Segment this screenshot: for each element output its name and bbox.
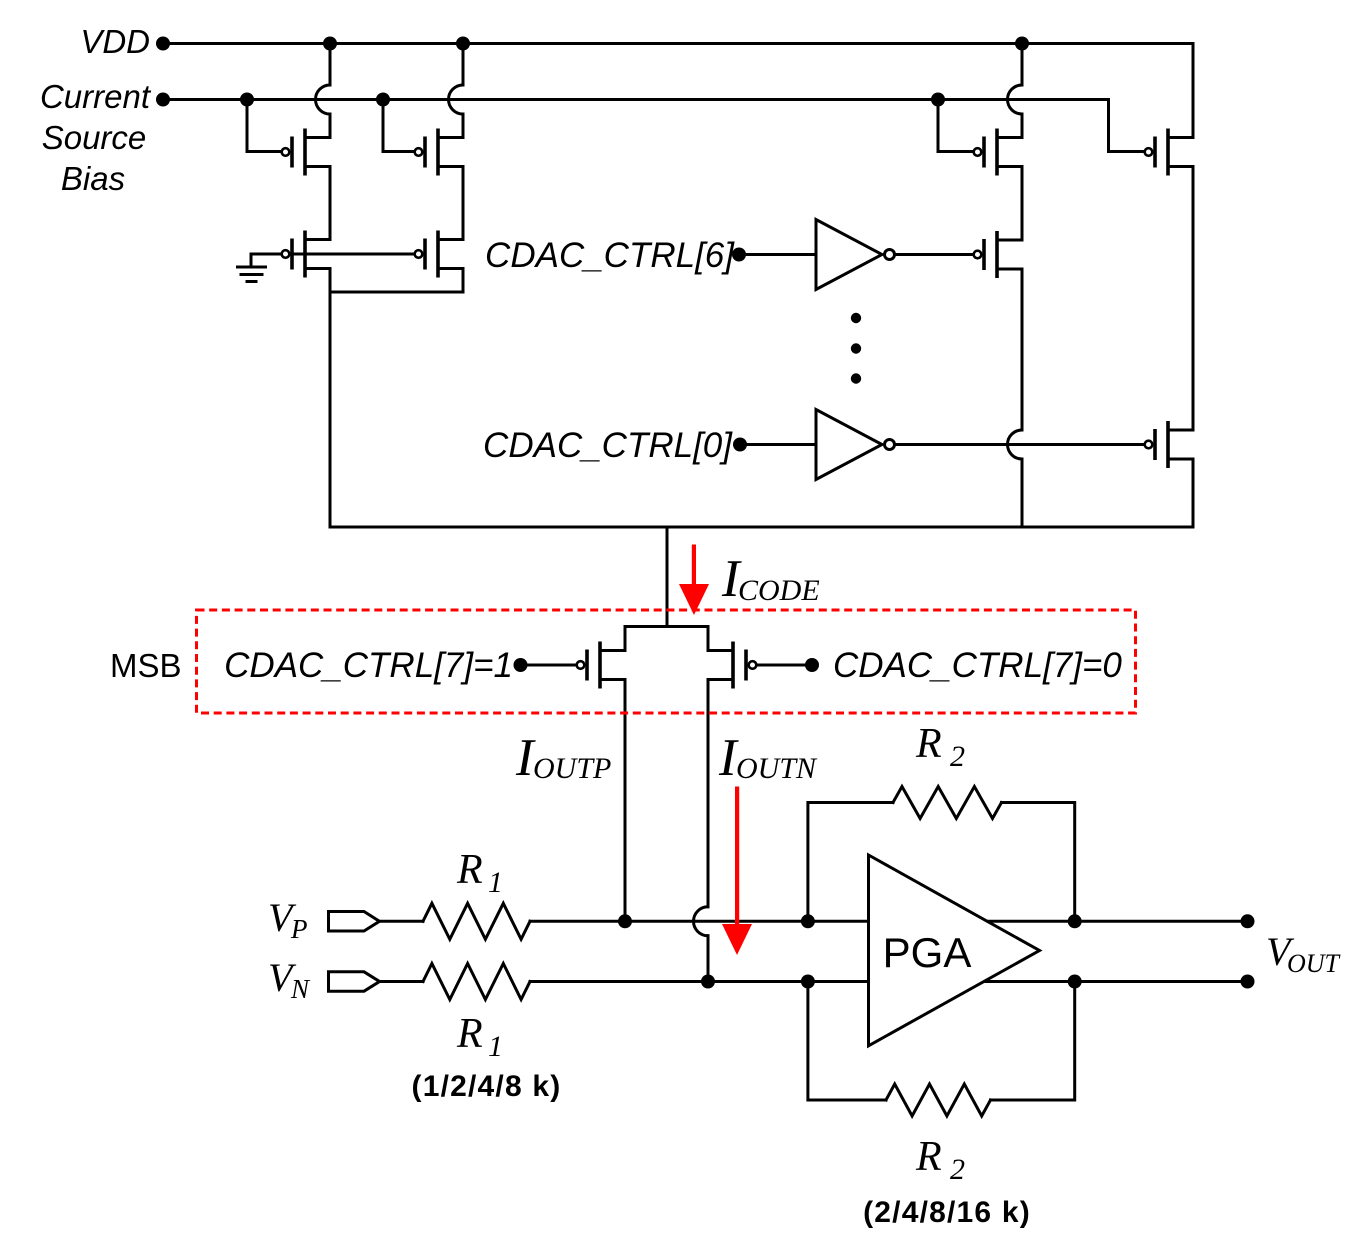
- svg-text:2: 2: [950, 740, 965, 773]
- svg-text:(2/4/8/16 k): (2/4/8/16 k): [863, 1196, 1031, 1229]
- transistor M5: [974, 129, 1022, 176]
- node IOUTP-VP junction: [618, 914, 632, 928]
- node bias terminal: [156, 93, 170, 107]
- wire VDD to M1 source with hop: [329, 44, 332, 86]
- wire R2 top feedback loop: [808, 803, 893, 922]
- wire CDAC_CTRL[6] input to inverter: [739, 253, 816, 256]
- wire M8 drain to bus: [1192, 459, 1195, 527]
- wire M5 drain to M6 source: [1021, 167, 1024, 241]
- node ctrl7a input: [514, 658, 528, 672]
- svg-text:OUT: OUT: [1287, 949, 1341, 978]
- node R2a right: [1068, 914, 1082, 928]
- wire VDD to M3 source with hop: [462, 44, 465, 86]
- transistor M2: [282, 231, 330, 278]
- wire I_OUTP drop: [624, 680, 627, 922]
- svg-text:Current: Current: [40, 78, 152, 115]
- svg-text:P: P: [290, 914, 308, 944]
- svg-text:VDD: VDD: [80, 23, 150, 60]
- transistor M4: [415, 231, 463, 278]
- transistor M3: [415, 129, 463, 176]
- arrow I_CODE: [679, 545, 709, 616]
- wire M4 drain merge: [330, 269, 463, 293]
- svg-text:1: 1: [488, 866, 503, 899]
- node VOUT- terminal: [1241, 975, 1255, 989]
- svg-text:Source: Source: [42, 119, 147, 156]
- wire VDD to M5 source with hop: [1021, 44, 1024, 86]
- MSB dashed box: [197, 610, 1136, 713]
- inverter U2: [816, 410, 895, 480]
- wire VN line: [380, 980, 424, 983]
- svg-text:MSB: MSB: [110, 647, 182, 684]
- wire bottom summing bus: [330, 526, 1193, 529]
- wire inverter U2 to M8 gate: [897, 443, 1145, 446]
- svg-text:PGA: PGA: [883, 929, 972, 976]
- node VDD terminal: [156, 37, 170, 51]
- node VDD-col1: [323, 37, 337, 51]
- wire VDD rail: [163, 42, 1193, 45]
- node ctrl6 input: [732, 248, 746, 262]
- wire R2 bottom feedback loop: [808, 982, 886, 1101]
- node ctrl7b input: [805, 658, 819, 672]
- transistor M8: [1145, 421, 1193, 468]
- wire VOUT negative line: [984, 980, 1248, 983]
- node bias-col6: [931, 93, 945, 107]
- svg-text:OUTN: OUTN: [736, 752, 818, 785]
- wire inverter U1 to M6 gate: [897, 253, 973, 256]
- resistor R1 top: [423, 903, 530, 939]
- svg-text:R: R: [456, 847, 483, 893]
- node bias-col2: [376, 93, 390, 107]
- op-amp PGA: [869, 855, 1040, 1046]
- wire bias rail: [163, 98, 1109, 101]
- node VOUT+ terminal: [1241, 914, 1255, 928]
- wire I_OUTN drop with hop over VP line: [707, 680, 710, 907]
- svg-text:(1/2/4/8 k): (1/2/4/8 k): [412, 1070, 562, 1103]
- transistor M6: [974, 231, 1022, 278]
- wire M7 drain to M8 source: [1192, 167, 1195, 431]
- inverter U1: [816, 220, 895, 290]
- transistor M9 MSB left: [577, 642, 625, 689]
- node VDD-col2: [456, 37, 470, 51]
- svg-text:Bias: Bias: [61, 160, 125, 197]
- ground: [236, 267, 267, 282]
- resistor R1 bottom: [423, 964, 530, 1000]
- wire M6 drain to bus with hop: [1021, 269, 1024, 430]
- svg-text:CDAC_CTRL[6]: CDAC_CTRL[6]: [485, 236, 735, 275]
- node R2a left: [801, 914, 815, 928]
- ellipsis dots: [851, 313, 861, 323]
- wire shared gate line M2 M4: [251, 253, 414, 256]
- node IOUTN-VN junction: [701, 975, 715, 989]
- wire M3 gate tap: [383, 100, 414, 152]
- wire M5 gate tap: [938, 100, 973, 152]
- transistor M1: [282, 129, 330, 176]
- arrow I_OUTN: [722, 787, 752, 956]
- wire CDAC_CTRL[7]=0 gate lead: [759, 664, 813, 667]
- svg-text:N: N: [290, 974, 311, 1004]
- svg-text:CODE: CODE: [738, 574, 820, 607]
- svg-text:R: R: [456, 1011, 483, 1057]
- resistor R2 bottom: [886, 1084, 991, 1116]
- port VP: [329, 912, 380, 932]
- port VN: [329, 972, 380, 991]
- svg-text:1: 1: [488, 1030, 503, 1063]
- wire CDAC_CTRL[7]=1 gate lead: [521, 664, 575, 667]
- svg-text:2: 2: [950, 1153, 965, 1186]
- wire VP line: [380, 920, 424, 923]
- wire M2 drain to bus: [329, 269, 332, 528]
- node ctrl0 input: [733, 438, 747, 452]
- transistor M7: [1145, 129, 1193, 176]
- transistor M10 MSB right: [708, 642, 756, 689]
- node R2b right: [1068, 975, 1082, 989]
- wire M1 drain to M2 source: [329, 167, 332, 240]
- resistor R2 top: [893, 787, 1002, 819]
- wire I_CODE drop: [666, 527, 669, 627]
- svg-text:CDAC_CTRL[0]: CDAC_CTRL[0]: [483, 426, 733, 465]
- wire M3 drain to M4 source: [462, 167, 465, 240]
- svg-text:R: R: [915, 1134, 942, 1180]
- node VDD-col6: [1015, 37, 1029, 51]
- wire bias rail corner to M7 gate: [1109, 100, 1145, 152]
- svg-text:OUTP: OUTP: [533, 752, 611, 785]
- wire gate to ground stub: [250, 254, 253, 266]
- node R2b left: [801, 975, 815, 989]
- node bias-col1: [240, 93, 254, 107]
- svg-text:CDAC_CTRL[7]=0: CDAC_CTRL[7]=0: [833, 646, 1122, 685]
- wire CDAC_CTRL[0] input to inverter: [740, 443, 816, 446]
- wire VOUT positive line: [987, 920, 1248, 923]
- wire VDD to M7 source: [1192, 44, 1195, 138]
- svg-text:CDAC_CTRL[7]=1: CDAC_CTRL[7]=1: [224, 646, 513, 685]
- wire MSB pair common source bar: [625, 627, 708, 651]
- svg-text:R: R: [915, 721, 942, 767]
- wire M1 gate tap: [247, 100, 281, 152]
